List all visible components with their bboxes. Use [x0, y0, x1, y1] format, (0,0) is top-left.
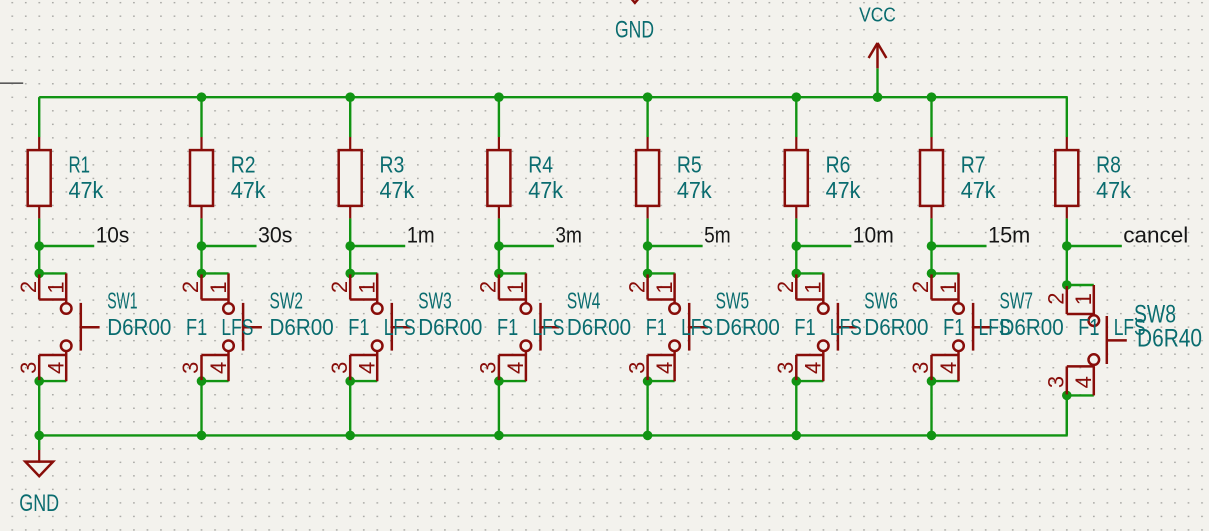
svg-text:47k: 47k [1096, 177, 1131, 203]
svg-text:3: 3 [624, 362, 649, 374]
svg-text:SW2: SW2 [270, 287, 304, 313]
svg-text:D6R00: D6R00 [107, 314, 171, 340]
svg-text:D6R00: D6R00 [567, 314, 631, 340]
svg-text:47k: 47k [677, 177, 712, 203]
svg-text:10m: 10m [853, 222, 894, 247]
svg-text:4: 4 [652, 362, 677, 374]
svg-text:47k: 47k [231, 177, 266, 203]
svg-text:2: 2 [16, 281, 41, 293]
svg-text:4: 4 [44, 362, 69, 374]
svg-text:LFS: LFS [384, 314, 416, 340]
svg-text:D6R00: D6R00 [1000, 314, 1064, 340]
svg-text:1: 1 [206, 281, 231, 293]
svg-text:F1: F1 [497, 314, 518, 340]
svg-text:LFS: LFS [681, 314, 713, 340]
svg-text:SW4: SW4 [567, 287, 601, 313]
svg-text:3: 3 [773, 362, 798, 374]
svg-text:R2: R2 [231, 152, 256, 178]
svg-text:5m: 5m [704, 222, 731, 247]
svg-text:SW5: SW5 [716, 287, 750, 313]
svg-text:1: 1 [801, 281, 826, 293]
svg-text:GND: GND [615, 16, 654, 43]
svg-text:47k: 47k [380, 177, 415, 203]
svg-text:F1: F1 [348, 314, 369, 340]
svg-text:47k: 47k [69, 177, 104, 203]
svg-text:15m: 15m [988, 222, 1030, 247]
svg-text:2: 2 [624, 281, 649, 293]
svg-text:SW3: SW3 [418, 287, 452, 313]
svg-text:3: 3 [908, 362, 933, 374]
svg-text:47k: 47k [528, 177, 563, 203]
svg-text:4: 4 [503, 362, 528, 374]
svg-text:D6R00: D6R00 [270, 314, 334, 340]
svg-text:1: 1 [1071, 293, 1096, 305]
svg-text:1: 1 [652, 281, 677, 293]
svg-text:LFS: LFS [830, 314, 862, 340]
svg-text:R8: R8 [1096, 152, 1121, 178]
svg-text:1: 1 [503, 281, 528, 293]
svg-text:3: 3 [16, 362, 41, 374]
svg-text:10s: 10s [96, 222, 130, 247]
svg-text:R1: R1 [69, 152, 91, 178]
svg-text:2: 2 [476, 281, 501, 293]
svg-text:2: 2 [1044, 292, 1069, 304]
svg-text:30s: 30s [258, 222, 293, 247]
svg-text:47k: 47k [961, 177, 996, 203]
svg-text:R5: R5 [677, 152, 702, 178]
svg-text:1: 1 [355, 281, 380, 293]
svg-text:F1: F1 [943, 314, 964, 340]
svg-text:R4: R4 [528, 152, 553, 178]
svg-text:D6R00: D6R00 [716, 314, 780, 340]
svg-text:1: 1 [936, 281, 961, 293]
svg-text:cancel: cancel [1123, 222, 1188, 247]
svg-text:F1: F1 [646, 314, 667, 340]
svg-text:SW6: SW6 [864, 287, 898, 313]
svg-text:2: 2 [327, 281, 352, 293]
svg-text:SW1: SW1 [107, 287, 137, 313]
svg-text:4: 4 [1071, 376, 1096, 388]
svg-text:3: 3 [178, 362, 203, 374]
svg-text:2: 2 [178, 281, 203, 293]
svg-text:R7: R7 [961, 152, 986, 178]
svg-text:3: 3 [327, 362, 352, 374]
svg-text:SW7: SW7 [1000, 287, 1034, 313]
svg-text:F1: F1 [186, 314, 207, 340]
svg-text:47k: 47k [826, 177, 861, 203]
svg-text:2: 2 [773, 281, 798, 293]
svg-text:LFS: LFS [532, 314, 564, 340]
svg-text:4: 4 [355, 362, 380, 374]
svg-text:VCC: VCC [859, 5, 896, 27]
svg-text:4: 4 [206, 362, 231, 374]
svg-text:3: 3 [1044, 376, 1069, 388]
svg-text:F1: F1 [1078, 314, 1099, 340]
svg-text:D6R00: D6R00 [418, 314, 482, 340]
svg-text:1: 1 [44, 281, 69, 293]
svg-text:R3: R3 [380, 152, 405, 178]
svg-text:LFS: LFS [221, 314, 253, 340]
svg-text:R6: R6 [826, 152, 851, 178]
svg-text:D6R40: D6R40 [1137, 325, 1202, 353]
svg-text:4: 4 [801, 362, 826, 374]
svg-text:4: 4 [936, 362, 961, 374]
svg-text:1m: 1m [407, 222, 435, 247]
svg-text:3m: 3m [555, 222, 582, 247]
svg-text:D6R00: D6R00 [864, 314, 928, 340]
svg-text:3: 3 [476, 362, 501, 374]
svg-text:2: 2 [908, 281, 933, 293]
svg-text:GND: GND [19, 490, 59, 517]
svg-text:F1: F1 [794, 314, 815, 340]
